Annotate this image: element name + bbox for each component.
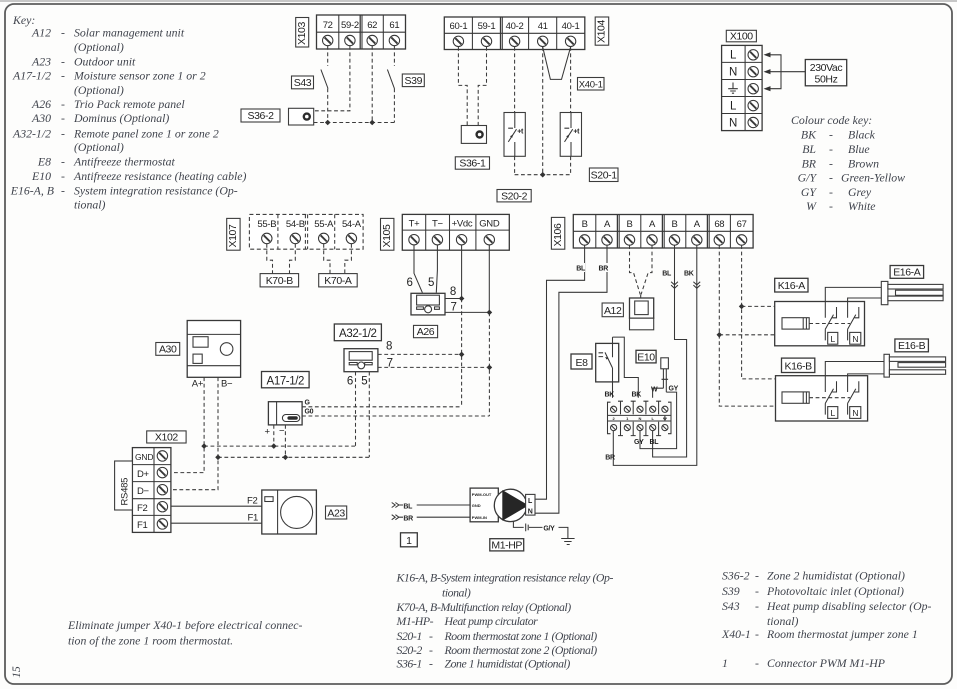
wire E10 W to strip col4 (653, 388, 664, 398)
svg-text:67: 67 (737, 219, 747, 230)
svg-text:L: L (730, 101, 737, 113)
svg-text:-: - (755, 584, 759, 598)
wire A30 A+ down to bus (171, 377, 204, 472)
svg-text:A: A (694, 219, 701, 230)
wire pair1 B to pump L (535, 245, 585, 499)
pump earth wire with capacitor mark (513, 521, 568, 538)
X106 label (551, 217, 564, 249)
junction GND / A32 pin7 (487, 365, 493, 371)
svg-text:Remote panel zone 1 or zone 2: Remote panel zone 1 or zone 2 (73, 126, 219, 140)
S43 label (292, 76, 314, 89)
wire 55-B to K70-B (267, 244, 273, 274)
ground symbol (pump) (561, 539, 574, 545)
wire A17 - down (284, 425, 286, 457)
pump M1-HP circle (494, 489, 528, 521)
jumper X40-1 (543, 47, 571, 79)
wire K16-A contact1 to E16-A (825, 287, 882, 301)
svg-text:A17-1/2: A17-1/2 (12, 69, 51, 83)
K70-A label (319, 274, 358, 288)
svg-text:BR: BR (598, 266, 608, 273)
resistance element E16-B (884, 354, 946, 377)
outdoor unit A23 (262, 490, 317, 534)
svg-text:A26: A26 (31, 97, 51, 111)
wire K16-B contact1 to E16-B (825, 362, 883, 376)
Dominus A30 (187, 321, 240, 378)
svg-text:-: - (429, 643, 433, 657)
svg-text:A+: A+ (192, 379, 204, 390)
wire A26 pin 8 to +Vdc (445, 298, 462, 300)
svg-text:N: N (852, 408, 858, 418)
svg-text:BL: BL (650, 439, 660, 446)
svg-text:BK: BK (801, 128, 817, 142)
wire E8 top hook to strip col3 (613, 337, 639, 398)
terminal block X100 (722, 45, 763, 130)
relay K16-A (775, 302, 865, 346)
svg-text:X102: X102 (155, 432, 178, 444)
E8/E10 terminal strip (608, 401, 672, 435)
svg-text:tional): tional) (767, 614, 799, 628)
svg-text:A23: A23 (327, 507, 345, 519)
svg-text:-System integration resistance: -System integration resistance relay (Op… (437, 571, 613, 585)
svg-text:X100: X100 (730, 31, 753, 43)
A17-1/2 label (262, 372, 310, 388)
junction +Vdc / A32 pin8 (459, 352, 465, 358)
svg-text:BL: BL (802, 142, 816, 156)
svg-text:-: - (61, 155, 65, 169)
wire A32 pin 8 to +Vdc (378, 353, 462, 355)
svg-text:PWM-OUT: PWM-OUT (472, 492, 492, 497)
svg-text:W: W (806, 199, 817, 213)
wire E10 GY wrap to strip col3 (640, 392, 677, 449)
wire 68 down (719, 245, 794, 406)
K16-A contact 1 (825, 302, 836, 341)
wire K16-B contact2 to E16-B (848, 374, 884, 376)
K16-A terminal N (850, 332, 861, 344)
bus B (D- / A17- / A32 pin5) (218, 456, 369, 458)
svg-text:7: 7 (451, 302, 457, 314)
switch S39 blade (387, 70, 394, 89)
A30 label (156, 343, 180, 356)
svg-text:N: N (852, 334, 858, 344)
svg-text:S43: S43 (294, 77, 312, 89)
wire pair3 A to strip col1 (613, 245, 697, 465)
svg-text:BK: BK (684, 271, 694, 278)
svg-text:A26: A26 (417, 326, 435, 338)
wire 67 down (742, 245, 796, 392)
K16-A label (775, 278, 808, 292)
svg-text:-: - (61, 111, 65, 125)
svg-text:W: W (651, 387, 658, 394)
svg-text:M1-HP-: M1-HP- (396, 614, 434, 628)
svg-text:-: - (829, 156, 833, 170)
svg-text:T+: T+ (409, 219, 421, 230)
svg-text:Eliminate jumper X40-1 before: Eliminate jumper X40-1 before electrical… (67, 618, 303, 632)
svg-text:A: A (649, 219, 656, 230)
svg-text:Zone 2 humidistat (Optional): Zone 2 humidistat (Optional) (767, 569, 905, 583)
svg-text:BL: BL (662, 271, 672, 278)
svg-text:S20-1: S20-1 (591, 170, 618, 182)
svg-text:-: - (61, 97, 65, 111)
wire G bus (302, 406, 462, 408)
junction 62/S36-2 (369, 120, 375, 126)
note about jumper X40-1 (67, 618, 303, 648)
svg-text:54-A: 54-A (342, 219, 362, 230)
wire GND vertical (488, 245, 490, 313)
chevron pair3 B (671, 282, 678, 289)
svg-text:54-B: 54-B (286, 219, 305, 230)
svg-text:-: - (755, 599, 759, 613)
svg-text:E8: E8 (37, 155, 51, 169)
svg-text:S43: S43 (722, 599, 740, 613)
bottom legend right column (721, 569, 932, 670)
svg-text:K70-A: K70-A (324, 275, 352, 287)
svg-text:-: - (755, 627, 759, 641)
svg-text:A30: A30 (31, 111, 51, 125)
K16-A terminal L (828, 332, 838, 344)
svg-text:F1: F1 (248, 513, 259, 524)
svg-text:-: - (829, 199, 833, 213)
X100 label (726, 30, 756, 42)
wire 40-1 to S20-1 (570, 47, 572, 113)
svg-text:6: 6 (407, 277, 413, 289)
wire 72 to S43 switch (327, 46, 329, 66)
K16-B terminal N (850, 407, 861, 419)
svg-text:40-1: 40-1 (562, 21, 580, 32)
svg-text:(Optional): (Optional) (74, 40, 124, 54)
svg-text:B−: B− (221, 379, 233, 390)
svg-text:tional): tional) (442, 585, 471, 599)
svg-text:BL: BL (403, 504, 413, 511)
svg-text:Heat pump disabling selector (: Heat pump disabling selector (Op- (766, 599, 932, 613)
svg-text:-: - (61, 183, 65, 197)
svg-text:BR: BR (802, 156, 817, 170)
op panel A32-1/2 (344, 349, 378, 372)
wire A32 pin 6 down (355, 372, 357, 446)
svg-text:S39: S39 (405, 75, 423, 87)
svg-text:X107: X107 (227, 224, 239, 247)
svg-text:Black: Black (848, 128, 876, 142)
svg-text:A17-1/2: A17-1/2 (267, 375, 304, 387)
svg-text:Photovoltaic inlet (Optional): Photovoltaic inlet (Optional) (766, 584, 904, 598)
svg-text:(Optional): (Optional) (74, 140, 124, 154)
A23 label (326, 506, 347, 519)
svg-text:8: 8 (450, 286, 456, 298)
thermostat common bus (515, 174, 571, 176)
M1-HP label (490, 539, 524, 552)
svg-text:T−: T− (432, 219, 444, 230)
svg-text:-: - (61, 55, 65, 69)
svg-text:6: 6 (347, 375, 353, 387)
svg-text:Trio Pack remote panel: Trio Pack remote panel (74, 97, 185, 111)
svg-text:GY: GY (634, 439, 644, 446)
svg-text:Antifreeze thermostat: Antifreeze thermostat (73, 155, 176, 169)
wire F2 to A23 (171, 505, 262, 507)
A32-1/2 label (334, 324, 381, 341)
wire T+ to A26 pin 6 (414, 245, 422, 293)
svg-text:G/Y: G/Y (543, 526, 555, 533)
svg-text:(Optional): (Optional) (74, 83, 124, 97)
wire 62 to junction (371, 46, 373, 123)
K16-B label (782, 358, 815, 372)
svg-text:D−: D− (137, 486, 150, 497)
wire S36-2 lower bus (314, 122, 395, 124)
svg-text:72: 72 (323, 20, 333, 31)
svg-text:E10: E10 (31, 169, 51, 183)
svg-text:X104: X104 (596, 20, 608, 43)
svg-text:1: 1 (406, 535, 412, 547)
svg-text:A32-1/2: A32-1/2 (339, 328, 376, 340)
svg-text:K70-A, B: K70-A, B (396, 600, 438, 614)
svg-text:-: - (61, 126, 65, 140)
svg-text:Brown: Brown (848, 156, 879, 170)
svg-text:Room thermostat zone 2 (Option: Room thermostat zone 2 (Optional) (444, 643, 598, 657)
wire 67 to K16-A coil top (742, 306, 792, 317)
junction 67 / K16-A coil (739, 304, 745, 310)
svg-text:tional): tional) (74, 197, 106, 211)
svg-text:GY: GY (801, 185, 818, 199)
wire +Vdc vertical (461, 245, 463, 299)
svg-text:S20-2: S20-2 (501, 190, 528, 202)
S36-2 label (241, 109, 280, 122)
svg-text:Green-Yellow: Green-Yellow (841, 171, 905, 185)
svg-text:BK: BK (632, 392, 642, 399)
svg-text:Room thermostat jumper zone 1: Room thermostat jumper zone 1 (766, 627, 918, 641)
solar management unit A12 (630, 295, 654, 330)
svg-text:GND: GND (479, 219, 500, 230)
svg-text:+Vdc: +Vdc (452, 219, 473, 230)
svg-text:A12: A12 (31, 26, 51, 40)
wire pair2 A to A12 (641, 245, 652, 294)
svg-text:GY: GY (669, 386, 679, 393)
svg-text:50Hz: 50Hz (815, 74, 838, 86)
svg-text:-: - (429, 657, 433, 671)
bottom legend left column (396, 571, 614, 671)
wire A17 + down (273, 425, 275, 446)
S20-2 label (497, 190, 531, 203)
230Vac supply arrows (764, 52, 806, 91)
svg-text:X105: X105 (381, 224, 393, 247)
chevron pair3 A (693, 282, 700, 289)
svg-text:−: − (279, 426, 285, 437)
wire S20-2 to junction bus (514, 156, 516, 174)
svg-text:N: N (528, 508, 533, 515)
E10 label (636, 350, 656, 363)
E16-A label (890, 266, 924, 279)
svg-text:S36-1: S36-1 (397, 657, 422, 671)
svg-text:59-1: 59-1 (478, 21, 496, 32)
svg-text:-: - (829, 128, 833, 142)
S36-1 label (455, 157, 489, 170)
A12 label (602, 303, 623, 317)
terminal block X105 (402, 214, 509, 250)
wire pair2 B to A12 (630, 245, 641, 294)
svg-text:-: - (829, 142, 833, 156)
svg-text:X40-1: X40-1 (579, 80, 603, 91)
wire E8 bottom to strip col1 (612, 382, 614, 398)
svg-text:Zone 1 humidistat (Optional): Zone 1 humidistat (Optional) (445, 657, 571, 671)
X105 label (381, 218, 394, 250)
230Vac 50Hz value box (805, 60, 846, 86)
wire A26 pin 7 to GND (445, 311, 489, 313)
svg-text:+t: +t (517, 129, 524, 136)
S20-1 label (589, 168, 618, 182)
wire 41 to junction (542, 47, 544, 175)
svg-text:59-2: 59-2 (341, 20, 359, 31)
K16-A contact 2 (848, 302, 859, 341)
wire S43 to junction (327, 89, 329, 123)
S36-1 humidistat (461, 126, 486, 144)
A26 label (414, 325, 438, 338)
svg-text:X106: X106 (552, 223, 564, 246)
svg-text:-Multifunction relay (Optional: -Multifunction relay (Optional) (437, 600, 571, 614)
pump L/N terminal box (526, 494, 535, 515)
antifreeze thermostat E8 (596, 337, 619, 382)
moisture sensor A17-1/2 (268, 402, 302, 425)
svg-text:X103: X103 (296, 22, 308, 45)
terminal block X107 (dashed optional) (249, 214, 363, 249)
wire 60-1 to S36-1 (458, 47, 467, 126)
bus A (D+ / A17+ / A32 pin6) (204, 445, 355, 447)
svg-text:E10: E10 (637, 351, 655, 363)
K16-B contact 2 (848, 376, 859, 415)
svg-text:+t: +t (573, 129, 580, 136)
svg-text:B: B (582, 219, 588, 230)
svg-text:GND: GND (472, 503, 481, 508)
K16-B terminal L (828, 407, 838, 419)
svg-text:X40-1: X40-1 (721, 627, 751, 641)
svg-text:40-2: 40-2 (506, 21, 524, 32)
S36-2 humidistat (289, 108, 314, 125)
wire BR label (pair1 A) (596, 263, 608, 272)
svg-text:68: 68 (714, 219, 724, 230)
svg-text:Colour code key:: Colour code key: (791, 113, 872, 127)
svg-text:A30: A30 (159, 344, 177, 356)
svg-text:Moisture sensor zone 1 or 2: Moisture sensor zone 1 or 2 (73, 69, 206, 83)
svg-text:55-A: 55-A (314, 219, 334, 230)
svg-text:15: 15 (9, 666, 23, 678)
svg-text:S36-1: S36-1 (459, 158, 486, 170)
junction 68 / K16-A coil (717, 332, 723, 338)
chevron BR inlet (392, 515, 403, 520)
wire 54-B to K70-B (290, 244, 296, 274)
connector 1 label (401, 533, 418, 547)
svg-text:L: L (831, 408, 836, 418)
wire 59-1 to S36-1 (478, 47, 486, 126)
svg-text:-: - (61, 26, 65, 40)
wire G0 bus (302, 415, 489, 417)
svg-text:N: N (729, 118, 737, 130)
wire A32 pin 5 down (368, 372, 370, 458)
svg-text:55-B: 55-B (257, 219, 276, 230)
svg-text:BR: BR (403, 516, 413, 523)
wire 61 to S39 switch (393, 46, 395, 66)
svg-text:Solar management unit: Solar management unit (74, 26, 185, 40)
svg-text:N: N (729, 67, 737, 79)
K70-B label (260, 274, 299, 288)
svg-text:K70-B: K70-B (266, 275, 294, 287)
svg-text:Blue: Blue (848, 142, 870, 156)
X40-1 label (578, 78, 605, 91)
svg-text:PWM-IN: PWM-IN (472, 515, 487, 520)
terminal block X106 (573, 215, 753, 249)
svg-text:BL: BL (576, 266, 586, 273)
svg-text:G: G (305, 400, 311, 407)
svg-text:S39: S39 (722, 584, 740, 598)
svg-text:F2: F2 (247, 496, 258, 507)
svg-text:G/Y: G/Y (798, 171, 818, 185)
svg-text:B: B (671, 219, 677, 230)
svg-text:E16-A, B: E16-A, B (10, 183, 54, 197)
svg-text:RS485: RS485 (120, 478, 131, 506)
wire T- to A26 pin 5 (436, 245, 437, 293)
terminal block X103 (317, 15, 406, 49)
wire 55-A to K70-A (324, 244, 330, 274)
wire S20-1 to junction bus (570, 156, 572, 174)
relay K16-B (776, 376, 868, 421)
wire 59-2 to S36-2 (314, 46, 350, 111)
svg-text:Dominus (Optional): Dominus (Optional) (73, 111, 169, 125)
svg-text:Connector PWM M1-HP: Connector PWM M1-HP (767, 656, 885, 670)
junction 41/thermostats (540, 172, 546, 178)
svg-text:Antifreeze resistance (heating: Antifreeze resistance (heating cable) (73, 169, 246, 183)
svg-text:-: - (61, 169, 65, 183)
svg-text:60-1: 60-1 (449, 21, 467, 32)
svg-text:D+: D+ (137, 469, 150, 480)
svg-text:Heat pump circulator: Heat pump circulator (444, 614, 539, 628)
terminal block X104 (444, 17, 585, 50)
svg-text:-: - (755, 569, 759, 583)
svg-text:A23: A23 (31, 55, 51, 69)
antifreeze resistance E10 (661, 358, 669, 392)
X104 label (595, 17, 609, 45)
svg-text:S20-2: S20-2 (397, 643, 423, 657)
wire A32 pin 7 to GND (378, 366, 490, 368)
junction +Vdc / A26 pin8 (459, 296, 465, 302)
E16-B label (895, 339, 929, 352)
wire BL label (pair1 B) (573, 263, 585, 272)
wire A30 B- down to bus (171, 377, 218, 489)
op panel A26 (411, 293, 445, 315)
key legend text (10, 13, 247, 211)
switch S43 blade (321, 70, 328, 89)
X103 label (296, 18, 309, 48)
svg-text:BK: BK (605, 392, 615, 399)
svg-text:N: N (639, 416, 642, 421)
X107 label (227, 218, 240, 250)
svg-text:5: 5 (361, 375, 367, 387)
svg-text:System integration resistance: System integration resistance (Op- (74, 183, 238, 197)
wire 40-2 to S20-2 (514, 47, 516, 113)
svg-text:E16-A: E16-A (893, 267, 921, 279)
K16-B contact 1 (825, 376, 836, 415)
svg-text:8: 8 (386, 340, 392, 352)
svg-text:61: 61 (389, 20, 399, 31)
wire K16-A contact2 to E16-A (848, 298, 883, 302)
svg-text:A32-1/2: A32-1/2 (12, 126, 51, 140)
svg-text:F2: F2 (137, 503, 148, 514)
E8 label (571, 354, 592, 369)
svg-text:K16-A, B: K16-A, B (396, 571, 438, 585)
svg-text:Room thermostat zone 1 (Option: Room thermostat zone 1 (Optional) (444, 629, 598, 643)
svg-text:L: L (831, 334, 836, 344)
svg-text:F1: F1 (137, 520, 148, 531)
svg-text:B: B (626, 219, 632, 230)
chevron BL inlet (392, 503, 403, 508)
svg-text:62: 62 (367, 20, 377, 31)
junction GND / A26 pin7 (487, 310, 493, 316)
PWM connector box (M1-HP) (470, 488, 498, 522)
wire 68 to K16-A coil bottom (719, 329, 792, 335)
